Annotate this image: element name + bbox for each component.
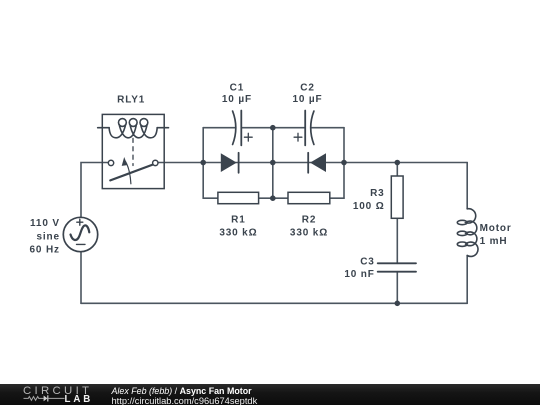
wire network left rail [202,128,204,199]
resistor R3 body [391,176,403,218]
voltage source V1 plus [77,219,83,225]
label R1 [219,215,257,239]
svg-text:110 V: 110 V [30,218,60,229]
voltage source V1 circle [63,217,97,251]
relay RLY1 arrow head [122,157,128,166]
svg-text:Motor: Motor [480,223,512,234]
capacitor C2 curved plate [311,111,314,144]
svg-text:R1: R1 [231,215,245,226]
capacitor C2 straight plate [304,111,306,146]
voltage source V1 minus [77,243,86,245]
footer url line [112,397,258,405]
svg-text:sine: sine [36,231,59,242]
wire bottom rail [81,302,467,304]
relay RLY1 coil stub left [98,127,109,129]
relay RLY1 coil humps [109,125,157,138]
wire left rail bottom (source to bottom rail) [80,252,82,303]
label Motor [480,223,512,247]
capacitor C3 bottom plate [378,271,416,273]
diode D1 bar [238,153,240,173]
resistor R1 body [218,192,259,203]
motor inductor M1 coil loops [457,220,467,246]
wire motor rail bottom [466,256,468,304]
wire network middle rail [272,128,274,199]
svg-text:10 µF: 10 µF [292,94,322,105]
relay RLY1 terminal right [153,160,158,165]
svg-text:100 Ω: 100 Ω [353,201,385,212]
label C2 [292,83,322,106]
diode D2 triangle [310,153,326,172]
svg-text:R2: R2 [302,215,316,226]
label R2 [290,215,328,239]
svg-text:RLY1: RLY1 [117,95,145,106]
wire resistor row [203,197,344,199]
label C3 [344,257,374,281]
node C junction dot [341,160,347,166]
svg-text:330 kΩ: 330 kΩ [290,228,328,239]
svg-text:C1: C1 [230,83,244,94]
node D junction dot [395,160,401,166]
resistor R2 body [288,192,330,203]
svg-text:C2: C2 [300,83,314,94]
capacitor C1 curved plate [233,111,236,144]
label R3 [353,188,385,212]
svg-text:C3: C3 [360,257,374,268]
wire relay to node A [158,162,203,164]
wire R3 to C3 [396,218,398,263]
label C1 [222,83,252,106]
capacitor C1 straight plate [240,111,242,146]
relay RLY1 box [102,114,164,188]
relay RLY1 coil stub right [157,127,168,129]
motor inductor M1 coil humps [466,209,478,257]
wire top row between C1 and C2 [241,127,305,129]
capacitor C1 plus [244,133,252,141]
wire top row C1 left [203,127,235,129]
diode D2 bar [307,153,309,173]
footer logo LAB [65,396,94,404]
wire top row C2 right [311,127,344,129]
relay RLY1 terminal left [108,160,113,165]
label RLY1 [117,95,145,106]
relay RLY1 switch blade [110,165,152,181]
svg-text:10 nF: 10 nF [344,269,374,280]
node B junction dot middle [270,160,276,166]
svg-text:1 mH: 1 mH [480,236,508,247]
relay RLY1 dashed link [132,138,134,165]
node A junction dot [200,160,206,166]
relay RLY1 coil loops [119,119,148,127]
capacitor C2 plus [294,133,302,141]
footer logo squiggle [22,394,68,405]
capacitor C3 top plate [378,262,416,264]
diode D1 triangle [221,153,237,172]
wire motor rail top [466,163,468,209]
footer title line [112,387,252,397]
footer logo CIRCUIT [23,386,92,396]
label V1 [30,218,60,256]
node B junction dot bottom [270,195,276,201]
node E junction dot [395,301,401,307]
node B junction dot top [270,125,276,131]
footer bar [0,384,540,405]
wire R3 branch top [396,163,398,177]
svg-text:10 µF: 10 µF [222,94,252,105]
relay RLY1 arrow arc [126,162,131,184]
svg-text:330 kΩ: 330 kΩ [219,228,257,239]
svg-text:R3: R3 [370,188,384,199]
svg-text:60 Hz: 60 Hz [30,245,60,256]
voltage source V1 sine [71,225,90,240]
wire main row node A to motor corner [203,162,467,164]
wire C3 to bottom rail [396,272,398,304]
wire network right rail [343,128,345,199]
wire left rail top (source to relay row) [81,163,108,218]
